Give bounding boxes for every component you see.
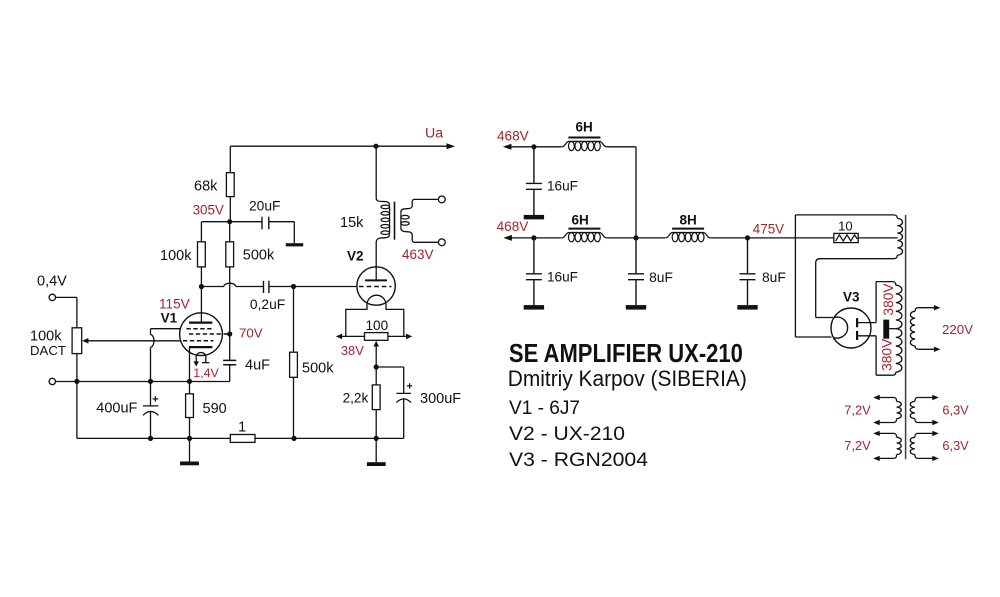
svg-text:15k: 15k bbox=[340, 215, 364, 231]
svg-text:SE AMPLIFIER UX-210: SE AMPLIFIER UX-210 bbox=[509, 338, 743, 368]
svg-text:500k: 500k bbox=[302, 361, 334, 377]
svg-text:68k: 68k bbox=[194, 179, 218, 195]
svg-text:1: 1 bbox=[238, 420, 246, 436]
svg-text:Dmitriy Karpov (SIBERIA): Dmitriy Karpov (SIBERIA) bbox=[508, 366, 747, 391]
svg-text:DACT: DACT bbox=[30, 343, 66, 358]
svg-text:6H: 6H bbox=[572, 213, 589, 228]
svg-text:380V: 380V bbox=[881, 283, 896, 316]
svg-text:468V: 468V bbox=[497, 128, 529, 143]
svg-text:7,2V: 7,2V bbox=[844, 402, 871, 417]
svg-text:468V: 468V bbox=[497, 219, 529, 234]
svg-text:V3 - RGN2004: V3 - RGN2004 bbox=[509, 449, 648, 471]
svg-text:300uF: 300uF bbox=[420, 391, 461, 407]
svg-text:380V: 380V bbox=[879, 338, 894, 371]
svg-text:70V: 70V bbox=[239, 325, 263, 340]
svg-text:100: 100 bbox=[366, 318, 389, 333]
svg-text:6H: 6H bbox=[576, 120, 593, 135]
svg-text:0,2uF: 0,2uF bbox=[250, 297, 285, 312]
svg-text:8uF: 8uF bbox=[762, 270, 786, 285]
svg-text:20uF: 20uF bbox=[249, 199, 280, 214]
svg-text:463V: 463V bbox=[402, 247, 434, 262]
svg-text:8uF: 8uF bbox=[649, 270, 673, 285]
svg-text:2,2k: 2,2k bbox=[343, 391, 369, 406]
svg-text:10: 10 bbox=[838, 219, 852, 234]
svg-text:6,3V: 6,3V bbox=[942, 402, 969, 417]
svg-text:400uF: 400uF bbox=[96, 401, 137, 417]
svg-text:4uF: 4uF bbox=[245, 358, 270, 374]
svg-text:475V: 475V bbox=[753, 222, 784, 237]
svg-text:V1: V1 bbox=[161, 311, 178, 326]
svg-text:16uF: 16uF bbox=[547, 270, 578, 285]
svg-text:7,2V: 7,2V bbox=[844, 438, 871, 453]
svg-text:38V: 38V bbox=[341, 343, 364, 358]
svg-text:115V: 115V bbox=[159, 296, 190, 311]
svg-text:220V: 220V bbox=[942, 322, 973, 337]
svg-text:0,4V: 0,4V bbox=[37, 274, 67, 290]
svg-text:V1 - 6J7: V1 - 6J7 bbox=[509, 397, 580, 419]
svg-text:500k: 500k bbox=[243, 248, 275, 264]
svg-text:590: 590 bbox=[203, 401, 227, 417]
svg-text:Ua: Ua bbox=[425, 126, 443, 142]
svg-text:V2 - UX-210: V2 - UX-210 bbox=[509, 423, 625, 445]
svg-text:V3: V3 bbox=[843, 290, 860, 305]
svg-text:16uF: 16uF bbox=[547, 179, 578, 194]
svg-text:1,4V: 1,4V bbox=[193, 366, 219, 380]
svg-text:8H: 8H bbox=[680, 213, 697, 228]
svg-text:6,3V: 6,3V bbox=[942, 438, 969, 453]
svg-text:V2: V2 bbox=[347, 249, 364, 264]
svg-text:100k: 100k bbox=[160, 248, 192, 264]
svg-text:305V: 305V bbox=[193, 203, 224, 218]
